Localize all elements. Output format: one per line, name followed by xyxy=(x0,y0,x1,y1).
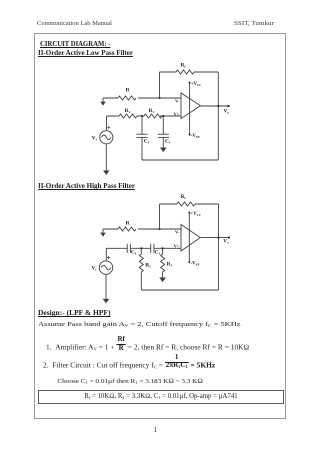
resistor Rf (LPF feedback) xyxy=(176,62,194,74)
svg-text:R1: R1 xyxy=(167,262,173,268)
wire: LPF left feedback vertical xyxy=(159,72,161,98)
source Vi (LPF input sine source) xyxy=(92,116,113,144)
item 2: filter circuit xyxy=(43,358,215,373)
node: junction of R1-R1 and C1 xyxy=(141,115,143,117)
design heading xyxy=(38,310,111,317)
svg-text:C1: C1 xyxy=(155,250,161,256)
capacitor C1 (second, to ground) xyxy=(158,116,171,148)
assume line xyxy=(38,321,240,327)
node: junction of R1 and C1 at op-amp input xyxy=(162,115,164,117)
source Vi (HPF input sine source) xyxy=(92,248,113,274)
node: junction C1-C1 with R1 xyxy=(140,247,142,249)
wire: LPF right vertical (feedback/output) xyxy=(217,72,219,160)
svg-text:R: R xyxy=(126,220,130,226)
ground (LPF inverting input reference) xyxy=(100,98,105,106)
wire: LPF output xyxy=(201,105,229,107)
power -Vee xyxy=(189,134,200,139)
node: junction C1 with R1 at op-amp input xyxy=(162,247,164,249)
ground (second R1 ground arrow) xyxy=(159,278,166,283)
resistor R (LPF input to inverting) xyxy=(118,87,136,100)
resistor Rf (HPF feedback) xyxy=(177,194,195,206)
wire: HPF output xyxy=(200,237,229,239)
outer frame box xyxy=(34,33,287,419)
capacitor C1 (first series, HPF) xyxy=(127,244,137,256)
resistor R1 (HPF second shunt, to ground) xyxy=(161,248,173,277)
power +Vcc xyxy=(189,82,202,87)
resistor R1 (LPF second series) xyxy=(144,108,162,118)
svg-text:-VEE: -VEE xyxy=(191,262,200,267)
wire: supply stem +Vcc/-Vee (HPF) xyxy=(188,213,190,263)
ground (HPF inverting input reference) xyxy=(100,229,105,237)
choose line xyxy=(57,379,202,386)
wire: HPF top feedback wire xyxy=(160,203,219,205)
subtitle: II-Order Active High Pass Filter xyxy=(38,182,135,189)
wire: LPF top feedback wire xyxy=(160,71,219,73)
svg-text:C1: C1 xyxy=(131,250,137,256)
result box xyxy=(38,390,285,404)
node: output terminal Vo xyxy=(224,105,230,114)
wire: LPF non-inverting input row xyxy=(107,115,182,117)
op-amp U1 (LPF uA741) xyxy=(174,93,201,119)
header right xyxy=(234,21,274,27)
wire: supply stem +Vcc/-Vee xyxy=(189,83,191,135)
capacitor C1 (second series, HPF) xyxy=(151,244,161,256)
svg-text:Vo: Vo xyxy=(223,239,229,245)
ground (second C1 ground arrow) xyxy=(160,148,167,153)
svg-text:R1: R1 xyxy=(145,262,151,268)
wire: LPF inverting input row xyxy=(103,97,181,99)
svg-text:Vi: Vi xyxy=(92,266,97,272)
wire: HPF inverting input row xyxy=(103,228,181,230)
resistor R1 (HPF first shunt, to rail) xyxy=(139,248,151,290)
subtitle: II-Order Active Low Pass Filter xyxy=(38,49,133,56)
wire: LPF bottom rail C1 to output xyxy=(142,159,218,161)
header left xyxy=(37,21,112,27)
svg-text:Rf: Rf xyxy=(181,194,187,200)
node: HPF output-feedback junction xyxy=(217,237,219,239)
node: HPF inverting input junction xyxy=(158,228,160,230)
node: LPF inverting input junction xyxy=(158,97,160,99)
node: output-feedback junction xyxy=(217,105,219,107)
wire: HPF left feedback vertical xyxy=(159,204,161,229)
wire: HPF non-inverting input row xyxy=(106,247,181,249)
page number xyxy=(154,427,158,434)
wire: HPF right vertical (feedback/output) xyxy=(218,204,220,290)
power +Vcc (HPF) xyxy=(188,212,201,217)
svg-text:+VCC: +VCC xyxy=(191,212,202,217)
node: HPF output terminal Vo xyxy=(223,237,230,245)
item 1: amplifier xyxy=(46,340,249,355)
ground (LPF source ground arrow) xyxy=(103,144,110,175)
op-amp U2 (HPF uA741) xyxy=(174,225,201,252)
svg-text:V+: V+ xyxy=(174,243,180,248)
ground (HPF source ground arrow) xyxy=(103,274,110,303)
wire: HPF bottom rail R1 to output xyxy=(141,289,218,291)
power -Vee (HPF) xyxy=(188,261,199,266)
resistor R (HPF input to inverting) xyxy=(118,220,136,231)
resistor R1 (LPF first series) xyxy=(119,108,137,118)
capacitor C1 (first, to output rail) xyxy=(137,116,150,160)
svg-text:V-: V- xyxy=(175,230,180,235)
title: CIRCUIT DIAGRAM xyxy=(40,40,110,47)
